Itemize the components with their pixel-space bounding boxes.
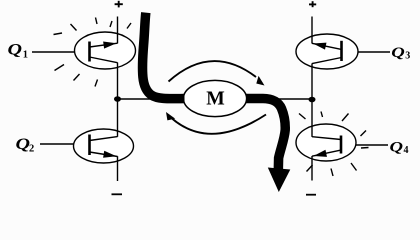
label + (right supply) <box>309 1 316 7</box>
label - (right bottom) <box>306 194 316 196</box>
wire right rail <box>311 17 313 181</box>
svg-text:Q: Q <box>390 140 404 156</box>
label + (left supply) <box>115 1 123 8</box>
rotation arrow upper (clockwise) <box>169 61 267 89</box>
transistor Q4 (NPN, on) <box>296 124 356 161</box>
motor M <box>183 80 246 116</box>
rotation arrow lower (clockwise) <box>163 110 266 134</box>
wire Q4 base lead <box>341 144 388 146</box>
transistor Q1 rays (on indicator) <box>54 18 132 87</box>
wire Q2 base lead <box>40 143 86 145</box>
svg-text:2: 2 <box>29 143 34 154</box>
transistor Q4 rays (on indicator) <box>299 112 369 177</box>
svg-text:M: M <box>206 89 225 110</box>
node right junction <box>309 97 316 103</box>
label - (left bottom) <box>112 193 123 195</box>
node left junction <box>114 96 121 102</box>
wire center horizontal <box>118 98 313 100</box>
transistor Q3 (PNP, off) <box>296 34 358 69</box>
wire thick current path left (from + through Q1 to motor) <box>142 13 184 99</box>
svg-text:Q: Q <box>391 45 405 61</box>
svg-text:Q: Q <box>8 42 23 59</box>
wire Q1 base lead <box>32 51 87 53</box>
transistor Q2 (NPN, off) <box>74 129 134 163</box>
wire thick current path right (from motor through Q4 to -) with arrowhead <box>246 99 285 172</box>
svg-text:4: 4 <box>404 145 409 156</box>
svg-text:1: 1 <box>23 50 28 61</box>
wire left rail <box>117 17 119 182</box>
svg-text:3: 3 <box>405 51 410 62</box>
transistor Q1 (PNP, on) <box>75 32 136 69</box>
wire Q3 base lead <box>342 51 391 53</box>
